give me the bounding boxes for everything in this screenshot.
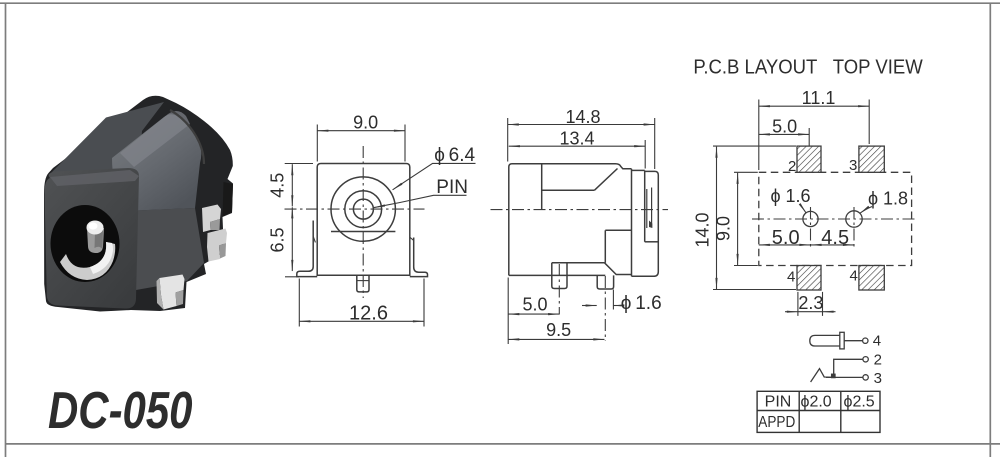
- svg-text:P.C.B LAYOUT TOP VIEW: P.C.B LAYOUT TOP VIEW: [693, 56, 923, 79]
- svg-text:ϕ 6.4: ϕ 6.4: [434, 145, 475, 166]
- svg-text:2: 2: [788, 158, 796, 175]
- svg-text:DC-050: DC-050: [48, 382, 193, 440]
- svg-text:4.5: 4.5: [821, 227, 849, 249]
- svg-text:PIN: PIN: [436, 177, 468, 198]
- svg-text:9.0: 9.0: [353, 113, 378, 133]
- svg-text:4: 4: [850, 268, 858, 285]
- svg-text:3: 3: [874, 370, 882, 387]
- svg-text:3: 3: [849, 157, 857, 174]
- svg-text:ϕ 1.6: ϕ 1.6: [621, 293, 662, 314]
- svg-text:APPD: APPD: [758, 414, 795, 431]
- svg-text:12.6: 12.6: [349, 302, 388, 324]
- svg-text:ϕ 1.6: ϕ 1.6: [770, 186, 810, 206]
- svg-text:14.8: 14.8: [565, 107, 600, 127]
- svg-text:4.5: 4.5: [268, 173, 288, 198]
- svg-text:9.5: 9.5: [546, 320, 571, 340]
- svg-text:11.1: 11.1: [802, 88, 836, 108]
- svg-text:4: 4: [787, 269, 795, 286]
- svg-text:9.0: 9.0: [714, 216, 734, 241]
- svg-text:13.4: 13.4: [559, 129, 594, 149]
- svg-text:4: 4: [873, 333, 881, 350]
- svg-text:2: 2: [874, 351, 882, 368]
- svg-text:5.0: 5.0: [522, 295, 547, 315]
- svg-text:2.3: 2.3: [798, 293, 823, 313]
- svg-text:ϕ2.0: ϕ2.0: [801, 393, 832, 410]
- svg-text:6.5: 6.5: [268, 227, 288, 252]
- svg-text:5.0: 5.0: [772, 227, 800, 249]
- svg-text:14.0: 14.0: [693, 212, 713, 247]
- svg-text:ϕ2.5: ϕ2.5: [844, 393, 875, 410]
- svg-text:PIN: PIN: [765, 394, 792, 411]
- svg-text:ϕ 1.8: ϕ 1.8: [868, 188, 908, 208]
- svg-text:5.0: 5.0: [772, 117, 797, 137]
